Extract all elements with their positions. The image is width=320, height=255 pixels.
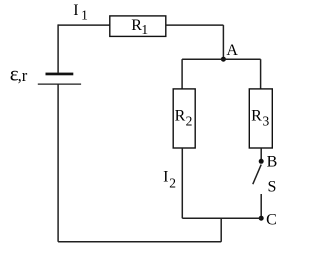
svg-text:3: 3 — [263, 113, 270, 128]
wire: top-left horizontal from battery branch to R1 — [58, 24, 110, 26]
wire: R1 right side to corner above node A — [166, 24, 224, 26]
node A — [221, 57, 226, 62]
svg-text:C: C — [266, 212, 277, 229]
svg-text:B: B — [267, 154, 278, 171]
switch S blade (open) — [253, 165, 261, 185]
svg-text:2: 2 — [186, 113, 193, 128]
resistor R3 — [249, 89, 272, 148]
svg-text:,r: ,r — [18, 66, 28, 85]
wire: horizontal branch at node A level — [182, 58, 261, 60]
svg-text:1: 1 — [141, 22, 148, 37]
svg-text:R: R — [251, 108, 262, 125]
wire: vertical down into node A — [222, 25, 224, 59]
svg-text:S: S — [268, 179, 277, 196]
wire: R2 bottom vertical down to lower horizontal — [181, 148, 183, 218]
svg-text:A: A — [226, 42, 238, 59]
wire: switch lower contact down to node C — [260, 194, 262, 218]
wire: battery bottom plate down left side — [57, 84, 59, 242]
svg-text:R: R — [175, 108, 186, 125]
wire: bottom horizontal back to battery branch — [58, 241, 221, 243]
wire: vertical jog from lower horizontal down to bottom wire — [220, 218, 222, 242]
resistor R2 — [173, 89, 195, 148]
svg-text:I: I — [73, 2, 78, 19]
wire: left vertical from top wire down to battery top plate — [57, 24, 59, 72]
svg-text:I: I — [163, 168, 168, 185]
wire: R3 bottom to node B — [260, 148, 262, 161]
node C — [259, 216, 264, 221]
node B — [259, 159, 264, 164]
wire: right branch vertical down to R3 — [260, 59, 262, 89]
resistor R1 — [110, 16, 166, 37]
wire: lower horizontal from R2 branch to node C — [182, 217, 261, 219]
svg-text:1: 1 — [81, 7, 88, 22]
wire: left branch vertical down to R2 — [181, 59, 183, 89]
svg-text:2: 2 — [169, 176, 176, 191]
